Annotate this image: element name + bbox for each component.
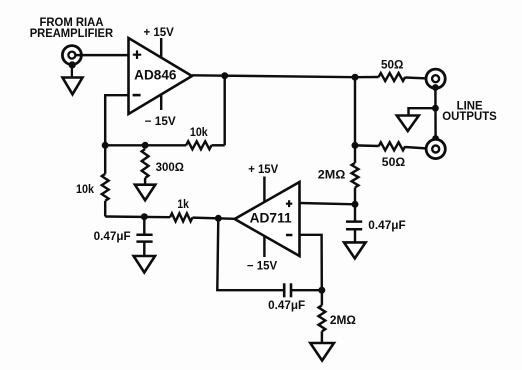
ground: below left 0.47µF xyxy=(134,256,155,273)
wire: shield junction to ground xyxy=(409,108,436,115)
svg-text:10k: 10k xyxy=(76,184,95,196)
svg-text:0.47μF: 0.47μF xyxy=(368,220,405,232)
svg-text:PREAMPLIFIER: PREAMPLIFIER xyxy=(30,28,114,40)
wire: lower 50Ω to J3 xyxy=(405,147,433,149)
node: upper 50Ω junction xyxy=(352,74,359,81)
svg-text:+ 15V: + 15V xyxy=(144,27,175,39)
connector J1 (input from RIAA preamplifier) xyxy=(62,46,81,65)
svg-text:2MΩ: 2MΩ xyxy=(318,170,346,182)
svg-text:300Ω: 300Ω xyxy=(156,162,184,174)
label: LINE OUTPUTS xyxy=(442,100,497,123)
wire: J1 to U1 noninverting input xyxy=(75,54,129,56)
connector J2 (upper line output) xyxy=(426,69,445,88)
ground: below U2 input filter cap xyxy=(344,242,366,258)
wire: U1 inverting input to feedback rail xyxy=(105,95,128,145)
svg-text:0.47μF: 0.47μF xyxy=(94,231,131,243)
svg-text:− 15V: − 15V xyxy=(145,116,176,128)
svg-text:+ 15V: + 15V xyxy=(248,164,278,176)
wire: feedback rail at U1 xyxy=(105,144,186,146)
wire: feedback from U1 output down to 10k xyxy=(223,76,225,146)
resistor 300Ω (to ground) xyxy=(142,149,184,185)
capacitor 0.47µF (U2 input filter) xyxy=(346,204,406,242)
wire: 10k to feedback drop xyxy=(212,144,225,146)
pin: U1 +15V supply xyxy=(144,27,175,58)
wire: J2 shield to J3 shield xyxy=(434,88,437,139)
node: servo feedback junction xyxy=(318,287,325,294)
node: ground branch junction xyxy=(432,105,439,112)
wire: line-output node down to lower 50Ω rail xyxy=(354,77,356,145)
wire: U2 inverting input down to feedback node xyxy=(300,235,322,290)
resistor 1k (servo injection) xyxy=(170,199,193,221)
connector J3 (lower line output) xyxy=(426,139,445,158)
capacitor 0.47µF (servo feedback) xyxy=(268,283,305,312)
node: 0.47µF junction on bottom rail xyxy=(141,213,148,220)
label: FROM RIAA PREAMPLIFIER xyxy=(30,17,114,40)
svg-text:1k: 1k xyxy=(177,199,189,211)
resistor 50Ω (upper line output) xyxy=(379,60,406,81)
svg-text:10k: 10k xyxy=(190,127,208,139)
wire: upper 50Ω to J2 xyxy=(405,78,433,79)
ground: below servo 2MΩ xyxy=(310,343,334,361)
svg-text:0.47μF: 0.47μF xyxy=(268,300,305,312)
node: U2 noninverting input junction xyxy=(352,201,359,208)
resistor 10k (U1 feedback) xyxy=(186,127,211,149)
wire: U1 output to line-output node xyxy=(192,75,355,77)
node: J1 shield junction xyxy=(69,61,76,77)
node: J2 shield xyxy=(432,84,439,91)
wire: node to lower 50Ω xyxy=(355,144,379,147)
op-amp U1 AD846 xyxy=(129,38,193,114)
node: J3 shield xyxy=(432,135,439,142)
capacitor 0.47µF (left, to ground) xyxy=(94,217,153,256)
ground: input connector shield xyxy=(63,78,83,95)
wire: 1k to U2 output xyxy=(193,218,235,219)
svg-text:FROM RIAA: FROM RIAA xyxy=(40,17,104,29)
svg-text:50Ω: 50Ω xyxy=(381,60,403,72)
resistor 50Ω (lower line output) xyxy=(379,142,406,169)
resistor 2MΩ (U2 input, from output rail) xyxy=(318,145,359,204)
resistor 10k (input divider leg) xyxy=(76,145,109,216)
wire: U2 output junction down to servo cap xyxy=(217,218,283,290)
wire: servo cap to inverting node xyxy=(292,289,322,291)
svg-text:− 15V: − 15V xyxy=(247,261,278,273)
svg-text:AD711: AD711 xyxy=(250,211,292,226)
op-amp U2 AD711 xyxy=(235,182,300,256)
node: feedback rail left junction xyxy=(102,142,109,149)
wire: U2 noninverting input to 2MΩ node xyxy=(300,203,356,204)
resistor 2MΩ (servo, to ground) xyxy=(319,290,356,343)
node: 300 ohm junction xyxy=(142,142,149,149)
wire: 10k leg to 1k resistor xyxy=(105,215,170,218)
svg-text:OUTPUTS: OUTPUTS xyxy=(442,111,497,123)
svg-text:2MΩ: 2MΩ xyxy=(330,315,356,327)
pin: U1 -15V supply xyxy=(145,94,176,128)
node: lower 50Ω junction xyxy=(352,142,359,149)
ground: below 300Ω xyxy=(135,185,155,201)
pin: U2 -15V supply xyxy=(247,236,278,273)
ground: line output shields xyxy=(397,116,419,132)
pin: U2 +15V supply xyxy=(248,164,278,202)
svg-text:AD846: AD846 xyxy=(134,67,177,82)
wire: node to upper 50Ω xyxy=(355,76,379,79)
node: U1 output / feedback junction xyxy=(221,72,228,79)
svg-text:50Ω: 50Ω xyxy=(382,157,405,169)
node: U2 output / feedback junction xyxy=(215,215,222,222)
